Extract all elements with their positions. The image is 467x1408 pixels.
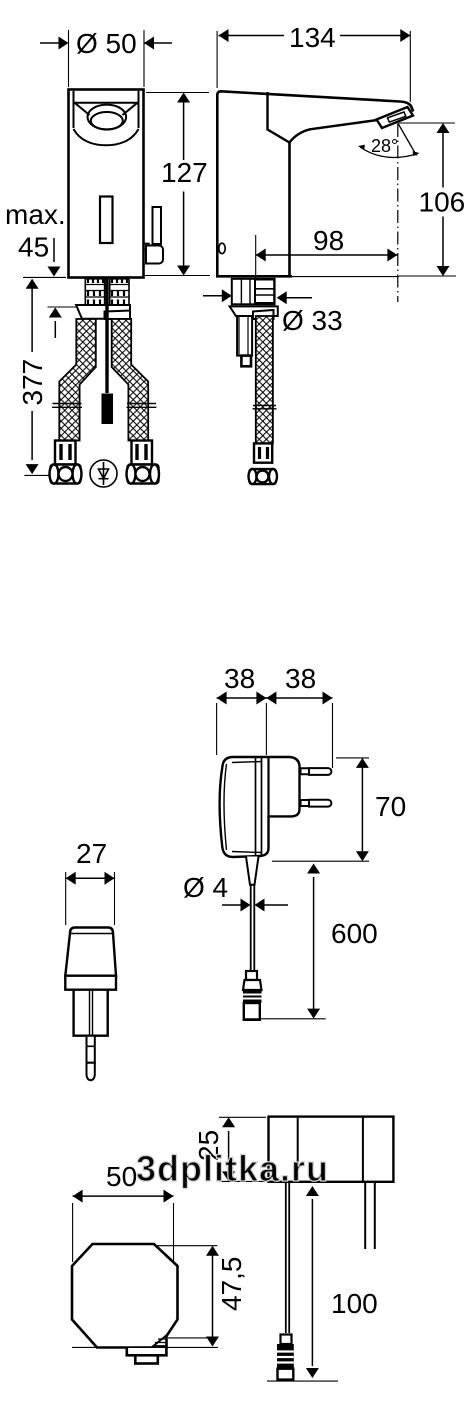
dimension 70 — [272, 758, 369, 861]
dimension D50 arrows — [40, 42, 59, 44]
strain relief — [246, 857, 259, 885]
mounting flange — [76, 305, 130, 319]
dimension 377 line — [31, 280, 33, 461]
jack connector — [243, 971, 262, 1020]
svg-text:100: 100 — [331, 1288, 378, 1319]
bottom connector — [127, 1348, 167, 1356]
sensor cable front — [105, 278, 108, 393]
spout outlet ellipses front — [88, 105, 127, 130]
side flange — [230, 306, 278, 316]
flange reference line — [48, 306, 78, 308]
side ferrule — [254, 443, 272, 462]
svg-text:98: 98 — [313, 225, 344, 256]
dimension D50 extension lines — [69, 30, 145, 87]
max45 reference line at counter — [23, 276, 66, 278]
svg-text:127: 127 — [161, 157, 208, 188]
dimension 100 — [311, 1199, 313, 1366]
mains wires — [365, 1183, 375, 1249]
svg-text:27: 27 — [76, 838, 107, 869]
svg-text:106: 106 — [419, 187, 466, 218]
dimension 600 — [243, 1018, 326, 1020]
left nut — [50, 465, 82, 484]
cable — [251, 885, 255, 970]
svg-text:38: 38 — [285, 663, 316, 694]
left ferrule — [55, 441, 76, 465]
svg-text:38: 38 — [224, 663, 255, 694]
side body outline — [217, 91, 413, 276]
battery window — [100, 197, 113, 244]
octagon box — [72, 1244, 178, 1348]
svg-text:28°: 28° — [371, 136, 398, 156]
svg-text:377: 377 — [17, 359, 48, 406]
left hose — [59, 319, 96, 441]
pins — [301, 768, 332, 807]
svg-text:70: 70 — [375, 791, 406, 822]
dimension 47,5 — [156, 1246, 217, 1338]
box cable — [286, 1183, 289, 1333]
box jack — [277, 1335, 294, 1380]
battery/diode symbol circle — [90, 460, 117, 487]
spout underside — [268, 92, 378, 143]
hose tick marks — [52, 404, 157, 408]
svg-text:134: 134 — [289, 22, 336, 53]
svg-text:600: 600 — [331, 918, 378, 949]
sensor window frame — [74, 91, 139, 145]
sensor dot side — [219, 243, 225, 253]
svg-text:Ø 4: Ø 4 — [183, 872, 228, 903]
377 bottom ref line — [24, 474, 50, 476]
svg-text:50: 50 — [106, 1161, 137, 1192]
side hose — [256, 316, 273, 443]
adapter body side — [220, 757, 300, 857]
svg-text:Ø 33: Ø 33 — [282, 305, 343, 336]
side tube — [153, 207, 162, 244]
right ferrule — [132, 441, 153, 465]
dimension 25 — [219, 1117, 266, 1181]
side valve piece — [237, 316, 252, 356]
max45 down arrow — [53, 238, 55, 262]
aerator — [377, 107, 414, 128]
28 degree annotation — [398, 123, 417, 156]
svg-text:3dplitka.ru: 3dplitka.ru — [136, 1148, 329, 1189]
svg-text:max.: max. — [5, 199, 66, 230]
svg-text:45: 45 — [18, 232, 49, 263]
base line — [216, 275, 292, 278]
svg-text:Ø 50: Ø 50 — [76, 28, 137, 59]
faucet front body — [69, 90, 144, 278]
side nut — [249, 469, 278, 484]
svg-text:47,5: 47,5 — [216, 1257, 247, 1312]
dimension 127 — [145, 93, 210, 276]
shank fittings under body — [85, 279, 129, 305]
side tube holder — [144, 244, 149, 250]
dimension D33 — [203, 295, 223, 297]
side shank assembly — [232, 279, 275, 305]
cable plug — [102, 394, 114, 425]
dimension 134 — [217, 31, 410, 102]
base line — [72, 1346, 218, 1348]
dimension 98 — [255, 235, 257, 303]
flange up arrow — [54, 321, 56, 338]
column front — [288, 143, 291, 278]
right hose — [112, 319, 149, 441]
thread hatch marks — [88, 279, 127, 305]
right nut — [127, 465, 160, 484]
dimension 106 — [399, 123, 456, 276]
box baseline — [267, 1380, 338, 1382]
lower arc of chrome body — [74, 129, 139, 145]
front body — [65, 928, 116, 1081]
top view box — [269, 1117, 394, 1182]
